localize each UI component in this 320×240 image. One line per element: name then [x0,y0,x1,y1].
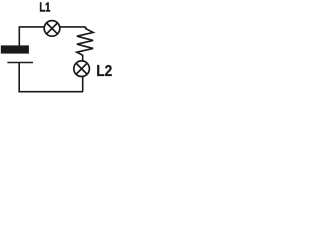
svg-text:L1: L1 [39,0,50,14]
svg-text:L2: L2 [96,63,112,80]
